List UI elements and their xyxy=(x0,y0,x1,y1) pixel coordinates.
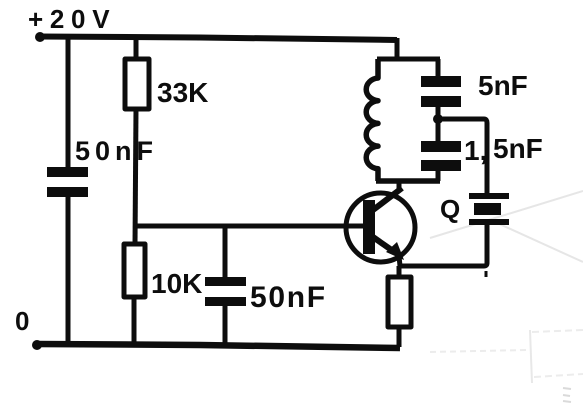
inductor L (coil, 4 loops) xyxy=(366,59,378,181)
wire: base wire branch down to 50nF bottom cap xyxy=(223,228,228,277)
svg-text:+20V: +20V xyxy=(28,4,116,34)
label 50nF left xyxy=(75,136,158,166)
capacitor 50nF left (two plates) xyxy=(47,167,88,197)
svg-text:33K: 33K xyxy=(157,77,208,108)
capacitor 5nF (two plates) xyxy=(421,76,461,107)
wire: tank top line xyxy=(377,57,440,62)
label 1,5nF xyxy=(464,133,543,166)
resistor 33K xyxy=(125,59,149,109)
svg-text:50nF: 50nF xyxy=(250,281,327,314)
capacitor 50nF bottom (two plates) xyxy=(205,277,246,306)
label 33K xyxy=(157,77,208,108)
transistor collector stroke xyxy=(373,188,402,210)
svg-text:0: 0 xyxy=(15,306,29,336)
svg-text:5nF: 5nF xyxy=(493,133,543,164)
label 5nF xyxy=(478,70,528,101)
svg-text:1,: 1, xyxy=(464,135,487,166)
wire: base lead xyxy=(133,224,364,229)
node dot: caps junction xyxy=(433,114,443,124)
wire: 33K bottom to base node and on to 10K xyxy=(135,109,136,245)
capacitor 1.5nF (two plates) xyxy=(421,141,461,171)
node dot: +20V rail left end xyxy=(35,32,45,42)
resistor emitter xyxy=(388,277,411,327)
label Q xyxy=(440,194,460,224)
transistor base bar xyxy=(363,200,375,254)
svg-text:Q: Q xyxy=(440,194,460,224)
svg-text:50nF: 50nF xyxy=(75,136,158,166)
node dot: ground rail left end xyxy=(32,340,42,350)
resistor 10K xyxy=(124,244,145,297)
wire: emitter resistor to ground rail xyxy=(397,327,402,347)
wire: crystal lead tick xyxy=(485,271,488,277)
wire: collector vertical xyxy=(397,181,402,192)
label 10K xyxy=(151,268,202,299)
wire: 50nF left to ground rail xyxy=(66,197,71,345)
svg-text:5nF: 5nF xyxy=(478,70,528,101)
label +20V xyxy=(28,4,116,34)
wire: emitter node down to resistor xyxy=(397,266,402,278)
wire: tank bottom line xyxy=(376,178,440,184)
wire: caps junction to crystal top xyxy=(438,119,487,194)
wire: tank right side segments xyxy=(436,59,441,181)
wire: +20V rail to 50nF left cap xyxy=(66,38,71,167)
svg-text:10K: 10K xyxy=(151,268,202,299)
wire: 0V ground rail xyxy=(36,344,400,348)
wire: rail to 33K resistor xyxy=(134,38,139,60)
transistor (NPN) circle xyxy=(346,193,415,262)
label 50nF bottom xyxy=(250,281,327,314)
wire: rail corner down to tank top xyxy=(395,38,400,59)
wire: 10K bottom to ground rail xyxy=(132,297,137,345)
crystal Q (plate, bar, plate) xyxy=(469,193,509,225)
transistor emitter stroke with arrowhead xyxy=(373,237,404,266)
wire: 50nF bottom to ground rail xyxy=(223,306,228,345)
wire: +20V top rail xyxy=(38,37,397,41)
label 0 xyxy=(15,306,29,336)
wire: crystal bottom down and left to emitter node xyxy=(399,225,487,266)
